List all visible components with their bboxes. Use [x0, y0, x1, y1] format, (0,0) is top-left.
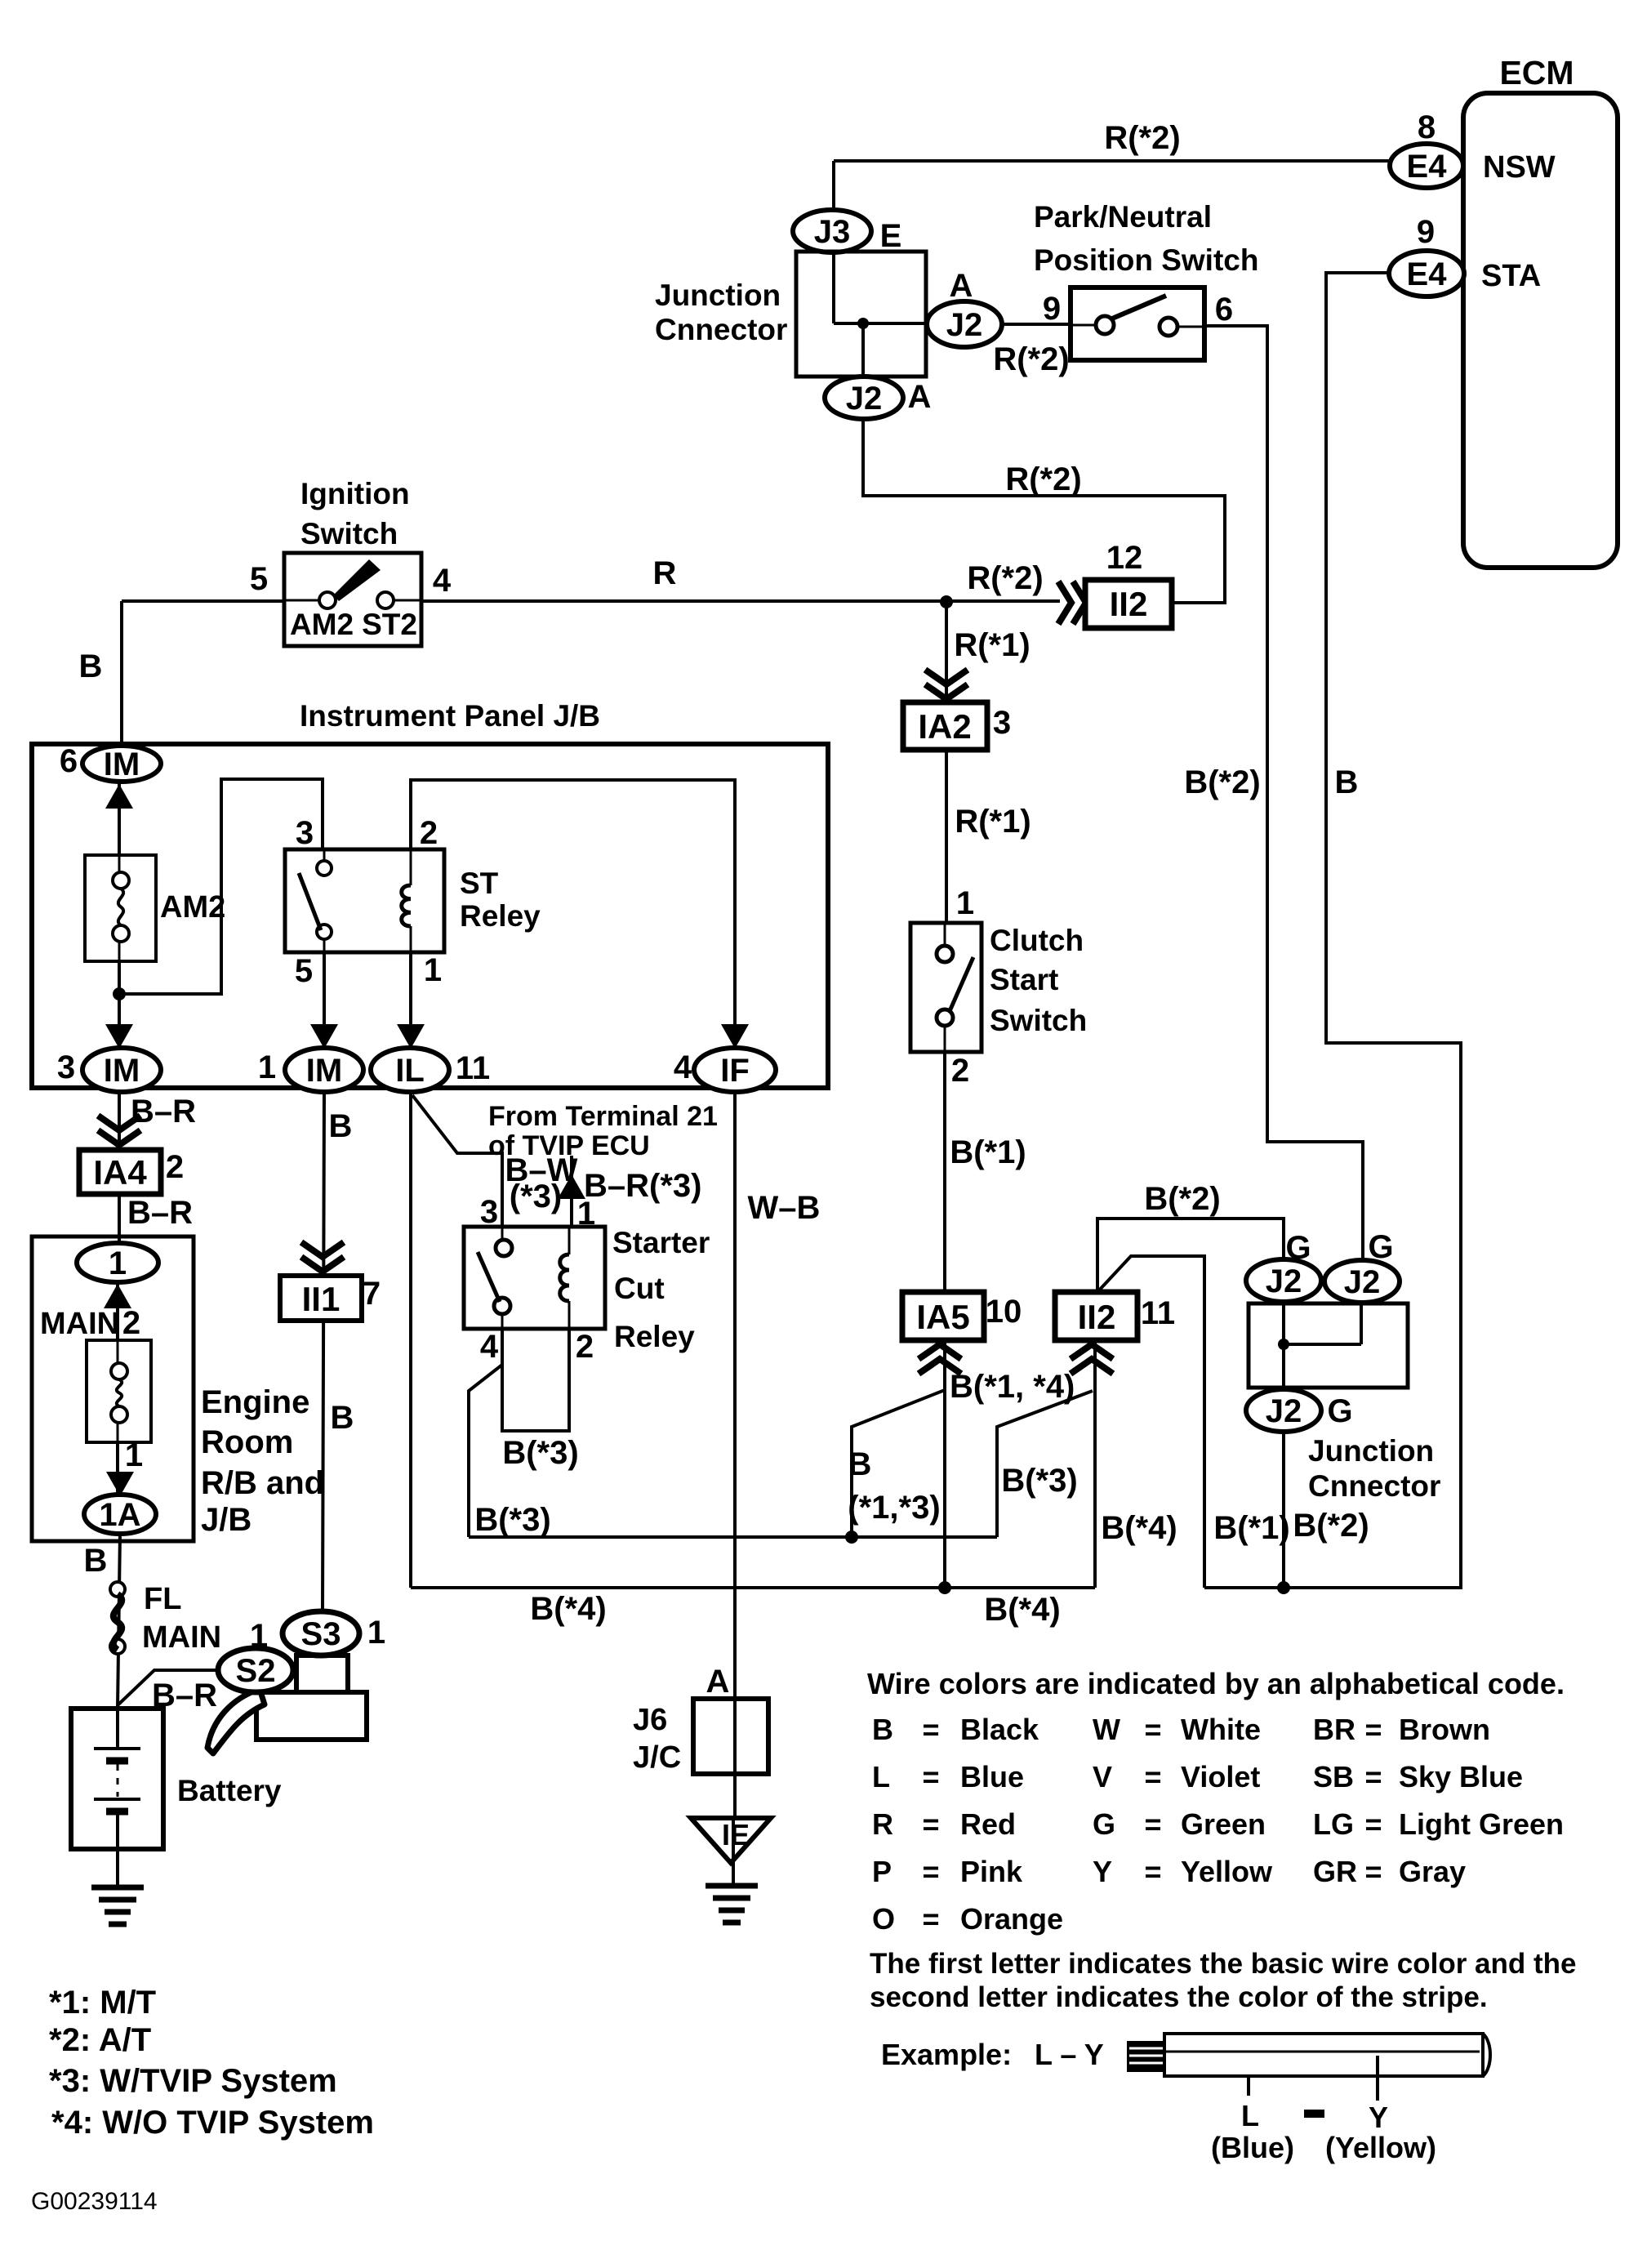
svg-text:Start: Start: [990, 963, 1058, 996]
svg-text:B(*2): B(*2): [1293, 1508, 1369, 1544]
wire IL diagonal to starter cut relay pin 3: [412, 1095, 502, 1240]
arrow into connector 1: [104, 1284, 131, 1308]
connector J2-A bottom oval: [825, 377, 903, 419]
ST relay contacts: [317, 861, 332, 876]
svg-text:Junction: Junction: [1308, 1434, 1434, 1468]
svg-text:STA: STA: [1481, 259, 1541, 293]
wire B(*1,*3) horizontal run: [469, 1535, 997, 1539]
connector IL pin 11 oval: [371, 1048, 449, 1092]
svg-text:(Blue): (Blue): [1211, 2131, 1294, 2164]
svg-text:2: 2: [576, 1329, 594, 1365]
node inside top junction connector: [857, 318, 869, 329]
svg-text:(Yellow): (Yellow): [1325, 2131, 1436, 2164]
wire W-B from IF pin 4 to J6 junction: [733, 1093, 737, 1820]
svg-text:Room: Room: [201, 1424, 293, 1460]
svg-text:J2: J2: [946, 307, 983, 343]
svg-text:Brown: Brown: [1399, 1713, 1490, 1746]
svg-text:=: =: [922, 1760, 939, 1793]
svg-text:S3: S3: [301, 1616, 341, 1652]
svg-text:R(*1): R(*1): [954, 627, 1030, 663]
starter cut relay box: [464, 1227, 605, 1329]
svg-text:11: 11: [456, 1050, 490, 1086]
svg-text:Example:: Example:: [881, 2038, 1012, 2071]
wire battery negative to ground: [116, 1849, 119, 1885]
example callout Y: [1376, 2056, 1379, 2101]
wire battery plates dashes: [117, 1764, 119, 1797]
svg-text:Instrument Panel J/B: Instrument Panel J/B: [300, 699, 600, 733]
svg-text:B(*3): B(*3): [474, 1502, 550, 1538]
svg-text:R: R: [872, 1807, 893, 1841]
connector IA2 box: [903, 702, 987, 750]
starter pictorial swoosh: [207, 1689, 265, 1753]
battery ground symbol: [91, 1885, 144, 1891]
svg-text:2: 2: [166, 1149, 184, 1185]
connector II2 pin 11 box: [1055, 1292, 1137, 1340]
svg-text:Black: Black: [960, 1713, 1039, 1746]
svg-text:3: 3: [480, 1194, 498, 1230]
connector IA5 box: [902, 1292, 984, 1340]
svg-text:B: B: [79, 648, 103, 684]
svg-text:11: 11: [1141, 1295, 1175, 1331]
svg-text:BR: BR: [1313, 1713, 1355, 1746]
wire below II2 pin 11: [1093, 1340, 1097, 1588]
svg-text:Clutch: Clutch: [990, 924, 1084, 957]
svg-text:Gray: Gray: [1399, 1855, 1466, 1888]
park/neutral position switch box: [1071, 287, 1204, 360]
clutch start switch blade: [950, 957, 973, 1011]
IE ground symbol: [706, 1883, 758, 1889]
svg-text:J3: J3: [814, 214, 851, 250]
svg-text:Reley: Reley: [460, 899, 541, 933]
wire R(*2) from junction connector to ECM E4 pin 8: [834, 159, 1390, 163]
park/neutral switch interior stubs: [1071, 324, 1096, 327]
svg-text:10: 10: [986, 1294, 1022, 1330]
svg-text:Switch: Switch: [300, 517, 398, 550]
svg-text:1: 1: [367, 1615, 385, 1651]
svg-text:Blue: Blue: [960, 1760, 1024, 1793]
svg-text:Yellow: Yellow: [1181, 1855, 1273, 1888]
fuse AM2 box: [85, 855, 156, 961]
svg-text:2: 2: [122, 1305, 140, 1341]
svg-text:B(*4): B(*4): [1101, 1510, 1177, 1546]
chevrons below II2 pin 11: [1071, 1344, 1113, 1374]
svg-text:B(*2): B(*2): [1184, 764, 1260, 800]
ground IE triangle: [691, 1818, 771, 1863]
svg-text:2: 2: [420, 815, 438, 851]
example wire graphic: [1164, 2034, 1483, 2076]
svg-text:O: O: [872, 1902, 895, 1936]
svg-text:J2: J2: [1344, 1264, 1381, 1300]
svg-text:7: 7: [363, 1276, 381, 1312]
connector 1 oval: [77, 1243, 158, 1282]
wire below IA5 to B(*4) run: [943, 1340, 946, 1588]
engine room R/B box: [32, 1236, 194, 1541]
svg-text:B(*1): B(*1): [1213, 1510, 1289, 1546]
svg-text:3: 3: [296, 815, 314, 851]
arrow into IM 6: [105, 784, 133, 809]
svg-text:G: G: [1327, 1393, 1352, 1429]
svg-text:*2: A/T: *2: A/T: [49, 2022, 151, 2058]
svg-text:Wire colors are indicated by a: Wire colors are indicated by an alphabet…: [867, 1667, 1565, 1700]
top junction connector box: [796, 252, 926, 377]
svg-text:6: 6: [1215, 292, 1233, 328]
instrument panel J/B box: [32, 744, 828, 1088]
svg-text:Cut: Cut: [614, 1272, 665, 1305]
svg-text:IA4: IA4: [93, 1153, 147, 1192]
svg-text:=: =: [1364, 1807, 1382, 1841]
svg-text:The first letter indicates the: The first letter indicates the basic wir…: [870, 1948, 1577, 1980]
svg-text:R/B and: R/B and: [201, 1465, 324, 1501]
svg-text:=: =: [1364, 1855, 1382, 1888]
connector J2 left oval: [1246, 1259, 1321, 1302]
svg-text:ECM: ECM: [1499, 54, 1574, 91]
ignition switch interior stubs: [284, 599, 319, 602]
svg-text:=: =: [1144, 1713, 1161, 1746]
wire B ignition switch to IM pin 6: [120, 601, 123, 748]
svg-text:IA2: IA2: [918, 707, 971, 746]
svg-text:Y: Y: [1093, 1855, 1112, 1888]
svg-text:=: =: [1364, 1760, 1382, 1793]
svg-text:4: 4: [433, 563, 452, 599]
svg-text:IL: IL: [395, 1053, 425, 1089]
svg-text:Sky Blue: Sky Blue: [1399, 1760, 1523, 1793]
svg-text:Light Green: Light Green: [1399, 1807, 1564, 1841]
svg-text:4: 4: [480, 1329, 499, 1365]
svg-text:B: B: [848, 1446, 872, 1482]
svg-text:A: A: [706, 1664, 730, 1700]
wire R ignition switch row: [122, 599, 286, 603]
starter cut relay contacts: [496, 1240, 512, 1256]
svg-text:B(*3): B(*3): [1001, 1463, 1077, 1499]
wire J2-A to park/neutral switch pin 9: [1002, 323, 1071, 326]
svg-text:IF: IF: [720, 1053, 750, 1089]
svg-text:II2: II2: [1078, 1298, 1116, 1336]
svg-text:P: P: [872, 1855, 892, 1888]
ST relay interior stubs: [323, 849, 326, 861]
svg-text:ST: ST: [460, 867, 499, 900]
svg-text:W–B: W–B: [748, 1190, 821, 1226]
wire J6 to IE ground: [732, 1820, 735, 1883]
svg-text:IM: IM: [306, 1053, 342, 1089]
wire diagonal IA5 to B(*1,*3) run: [852, 1390, 945, 1537]
svg-text:6: 6: [60, 743, 78, 779]
svg-text:Position Switch: Position Switch: [1034, 243, 1258, 277]
wire diagonal B(*3) from pin 4: [469, 1365, 502, 1537]
wire ST relay pin 5 to IM pin 1: [323, 952, 326, 1049]
svg-text:LG: LG: [1313, 1807, 1354, 1841]
wire R(*1) branch to IA2 and clutch start switch: [945, 601, 948, 925]
svg-text:1: 1: [424, 952, 442, 988]
svg-text:1: 1: [109, 1245, 127, 1281]
wire inside engine room R/B from connector 1 to 1A: [116, 1280, 119, 1496]
wire B(*1) from II2 pin 11: [1097, 1256, 1204, 1588]
svg-text:MAIN: MAIN: [142, 1620, 221, 1655]
svg-text:E: E: [880, 218, 902, 254]
svg-text:W: W: [1093, 1713, 1120, 1746]
connector IF pin 4 oval: [694, 1048, 776, 1092]
svg-text:MAIN: MAIN: [40, 1307, 119, 1341]
svg-text:(*1,*3): (*1,*3): [848, 1490, 940, 1526]
wire B(*4) bottom run: [411, 1586, 1095, 1589]
connector E4 pin 9 (STA): [1389, 251, 1464, 296]
node inside bottom junction connector: [1278, 1339, 1289, 1350]
arrow into IM 1: [310, 1024, 338, 1049]
wire B(*2) park/neutral pin 6 to right J2: [1204, 326, 1363, 1262]
fuse MAIN box: [87, 1340, 151, 1442]
svg-text:J2: J2: [846, 381, 883, 417]
svg-text:3: 3: [993, 705, 1011, 741]
svg-text:Engine: Engine: [201, 1384, 309, 1420]
connector E4 pin 8 (NSW): [1390, 144, 1463, 188]
svg-text:White: White: [1181, 1713, 1261, 1746]
wire junction connector J3 drop: [832, 161, 835, 214]
svg-text:J6: J6: [633, 1703, 667, 1737]
wire diagonal B(*3) up to II2 pin 11: [997, 1391, 1093, 1537]
arrow into IM 3: [105, 1024, 133, 1049]
starter cut relay blade: [478, 1252, 500, 1302]
starter cut relay interior stubs: [501, 1227, 504, 1240]
svg-text:AM2: AM2: [290, 608, 354, 641]
svg-text:Ignition: Ignition: [300, 477, 410, 510]
connector IM pin 6 oval: [82, 746, 161, 782]
wire B from ECM E4 pin 9 STA: [1204, 273, 1461, 1588]
starter body large box: [256, 1692, 367, 1740]
bottom junction connector box: [1249, 1303, 1408, 1388]
ST relay box: [285, 849, 444, 952]
svg-text:B–R(*3): B–R(*3): [584, 1168, 701, 1204]
starter body small box: [296, 1655, 348, 1692]
node R wire to R(*1) branch: [940, 595, 953, 608]
svg-text:From Terminal 21: From Terminal 21: [488, 1101, 718, 1132]
svg-text:B(*1, *4): B(*1, *4): [950, 1369, 1075, 1405]
connector II1 box: [280, 1276, 362, 1321]
svg-text:FL: FL: [144, 1582, 181, 1616]
wire B from IM pin 1 through II1 to starter S3: [323, 1093, 324, 1611]
svg-text:Red: Red: [960, 1807, 1016, 1841]
svg-text:B–R: B–R: [127, 1195, 193, 1231]
svg-text:*4: W/O TVIP System: *4: W/O TVIP System: [51, 2105, 374, 2141]
svg-text:9: 9: [1043, 291, 1061, 327]
svg-text:Battery: Battery: [177, 1774, 282, 1807]
svg-text:J/C: J/C: [633, 1740, 681, 1775]
svg-text:=: =: [922, 1713, 939, 1746]
wire inside bottom junction connector: [1282, 1300, 1285, 1391]
svg-text:Cnnector: Cnnector: [1308, 1469, 1440, 1503]
fuse MAIN stubs: [117, 1340, 119, 1363]
svg-text:=: =: [1364, 1713, 1382, 1746]
svg-text:Starter: Starter: [612, 1226, 710, 1259]
svg-text:J2: J2: [1266, 1263, 1302, 1299]
wire B-R(*3) starter cut relay pin 1 to TVIP ECU: [570, 1156, 573, 1254]
svg-text:SB: SB: [1313, 1760, 1354, 1793]
svg-text:GR: GR: [1313, 1855, 1357, 1888]
chevrons into II1: [301, 1242, 344, 1272]
wire inside battery to plates: [116, 1709, 119, 1749]
svg-text:1: 1: [258, 1049, 276, 1085]
example callout dash: [1304, 2110, 1324, 2118]
svg-text:Orange: Orange: [960, 1902, 1063, 1936]
connector J2 right oval: [1324, 1260, 1400, 1303]
connector IA4 box: [79, 1150, 161, 1194]
svg-text:L: L: [1241, 2099, 1259, 2132]
svg-text:8: 8: [1418, 109, 1436, 145]
svg-text:=: =: [922, 1855, 939, 1888]
svg-text:*1: M/T: *1: M/T: [49, 1985, 156, 2021]
svg-text:1: 1: [125, 1437, 143, 1473]
svg-text:(*3): (*3): [510, 1179, 562, 1214]
svg-text:IE: IE: [722, 1818, 750, 1851]
wire branch from AM2 fuse to ST relay pin 3: [119, 779, 323, 994]
wire B from IM pin 6 through AM2 fuse to IM pin 3: [118, 782, 121, 1049]
chevrons into IA2: [925, 670, 968, 699]
clutch start switch interior stubs: [944, 923, 946, 946]
svg-text:B: B: [1335, 764, 1359, 800]
svg-text:J2: J2: [1266, 1393, 1302, 1429]
node IA5 wire meets B(*4): [938, 1581, 951, 1594]
connector IM pin 3 oval: [82, 1048, 161, 1092]
svg-text:R(*2): R(*2): [967, 560, 1043, 596]
fuse AM2 stubs: [118, 855, 121, 872]
svg-text:1: 1: [956, 885, 974, 921]
svg-text:Cnnector: Cnnector: [655, 313, 787, 346]
connector IM pin 1 oval: [285, 1048, 363, 1092]
wire B-R from IM pin 3 through IA4 to fuse block: [118, 1088, 121, 1245]
fuse MAIN symbol: [111, 1363, 127, 1379]
svg-text:E4: E4: [1407, 256, 1448, 292]
svg-text:=: =: [1144, 1760, 1161, 1793]
svg-text:=: =: [922, 1807, 939, 1841]
svg-text:2: 2: [951, 1053, 969, 1089]
svg-text:S2: S2: [236, 1653, 276, 1689]
svg-text:Y: Y: [1369, 2101, 1388, 2134]
svg-text:*3: W/TVIP System: *3: W/TVIP System: [49, 2063, 337, 2099]
svg-text:9: 9: [1417, 214, 1435, 250]
svg-text:J/B: J/B: [201, 1502, 252, 1538]
svg-text:Reley: Reley: [614, 1320, 695, 1353]
svg-text:B(*1): B(*1): [950, 1134, 1026, 1170]
chevrons into IA4: [98, 1116, 140, 1145]
svg-text:IM: IM: [104, 1053, 140, 1089]
svg-text:A: A: [908, 379, 932, 415]
svg-text:R(*1): R(*1): [955, 804, 1030, 840]
park/neutral switch contacts: [1096, 316, 1114, 334]
wire inside top junction connector: [832, 250, 835, 323]
svg-text:4: 4: [674, 1049, 692, 1085]
wire battery lower plate to case: [116, 1811, 119, 1849]
clutch start switch contacts: [937, 946, 953, 962]
svg-text:B: B: [331, 1400, 354, 1436]
ST relay blade: [299, 873, 321, 930]
ignition switch lever: [333, 559, 381, 601]
svg-text:B(*4): B(*4): [984, 1592, 1060, 1628]
connector J2-A right oval: [927, 301, 1002, 347]
svg-text:II1: II1: [302, 1280, 341, 1318]
svg-text:12: 12: [1106, 540, 1143, 576]
node bottom J2 wire meets B run: [1277, 1581, 1290, 1594]
svg-text:1A: 1A: [99, 1497, 140, 1533]
junction J6 box: [693, 1699, 768, 1774]
fusible link FL MAIN: [110, 1582, 125, 1597]
svg-text:Junction: Junction: [655, 278, 781, 312]
svg-text:B(*4): B(*4): [530, 1591, 606, 1627]
svg-text:B: B: [329, 1108, 353, 1144]
svg-text:L – Y: L – Y: [1035, 2038, 1104, 2071]
clutch start switch box: [910, 923, 982, 1052]
wire bottom J2 to B ground run: [1282, 1430, 1285, 1588]
svg-text:R(*2): R(*2): [1005, 461, 1081, 497]
svg-text:B: B: [872, 1713, 893, 1746]
wire R(*2) from bottom J2-A to II2 pin 12: [863, 417, 1225, 603]
wire B(*1) clutch start switch to IA5: [943, 1052, 946, 1292]
example callout L: [1247, 2076, 1250, 2096]
wire B-R battery to S2: [118, 1670, 219, 1705]
svg-text:B(*3): B(*3): [502, 1435, 578, 1471]
wire ST relay pin 2 to IF pin 4: [411, 780, 735, 1049]
svg-text:=: =: [1144, 1807, 1161, 1841]
svg-text:G00239114: G00239114: [31, 2188, 158, 2215]
svg-text:=: =: [922, 1902, 939, 1936]
node AM2 fuse branch: [113, 987, 126, 1000]
svg-text:IA5: IA5: [916, 1298, 969, 1336]
wire B(*2) from II2 pin 11 to left J2: [1097, 1219, 1284, 1292]
ignition switch contacts: [319, 592, 336, 608]
svg-text:B–R: B–R: [131, 1094, 196, 1130]
svg-text:L: L: [872, 1760, 890, 1793]
svg-text:II2: II2: [1110, 585, 1148, 623]
svg-text:AM2: AM2: [160, 890, 225, 925]
svg-text:V: V: [1093, 1760, 1112, 1793]
connector S3 oval: [283, 1611, 359, 1655]
ignition switch box: [284, 553, 421, 646]
svg-text:5: 5: [295, 953, 313, 989]
svg-text:IM: IM: [104, 746, 140, 782]
arrow up B-R(*3): [558, 1174, 585, 1199]
connector S2 oval: [218, 1648, 293, 1692]
svg-text:Switch: Switch: [990, 1004, 1087, 1037]
svg-text:R: R: [653, 555, 677, 591]
svg-text:Park/Neutral: Park/Neutral: [1034, 200, 1212, 234]
ECM module box: [1463, 93, 1618, 568]
arrow into 1A: [106, 1472, 134, 1496]
svg-text:A: A: [950, 268, 973, 304]
wire starter cut relay pin 4 and jumper to pin 2: [502, 1314, 569, 1431]
svg-text:second letter indicates the co: second letter indicates the color of the…: [870, 1981, 1488, 2013]
chevrons into II2 pin 12: [1058, 581, 1086, 624]
wire ST relay pin 1 to IL pin 11: [409, 952, 412, 1049]
svg-text:Pink: Pink: [960, 1855, 1023, 1888]
connector 1A oval: [84, 1495, 156, 1534]
battery box: [71, 1709, 163, 1849]
svg-text:NSW: NSW: [1483, 150, 1556, 185]
svg-text:B(*2): B(*2): [1144, 1181, 1220, 1217]
connector II2 pin 12 box: [1085, 580, 1172, 628]
svg-text:Green: Green: [1181, 1807, 1266, 1841]
svg-text:5: 5: [250, 561, 268, 597]
svg-text:R(*2): R(*2): [993, 341, 1069, 377]
chevrons below IA5: [919, 1344, 961, 1374]
ST relay coil: [402, 885, 411, 926]
svg-text:=: =: [1144, 1855, 1161, 1888]
connector J2 bottom oval: [1246, 1389, 1321, 1432]
svg-text:R(*2): R(*2): [1104, 120, 1180, 156]
arrow into IF 4: [721, 1024, 749, 1049]
node B(*1,*3) junction: [845, 1531, 858, 1544]
svg-text:E4: E4: [1407, 149, 1448, 185]
connector J3 oval: [793, 210, 871, 252]
wire IL pin 11 left vertical: [409, 1094, 412, 1588]
fuse AM2 symbol: [113, 872, 129, 889]
svg-text:Violet: Violet: [1181, 1760, 1260, 1793]
